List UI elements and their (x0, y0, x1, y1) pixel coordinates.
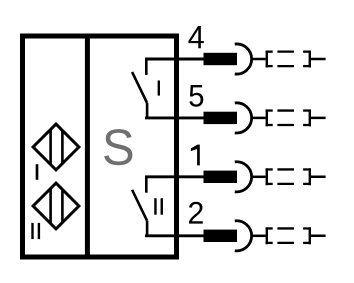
wire socket to connector 2 (251, 235, 266, 238)
switch II (132, 177, 147, 236)
pin 5 plug contact (204, 112, 238, 124)
pin 5 label (189, 85, 203, 107)
sensor element I label I (36, 164, 39, 180)
wire socket to connector 1 (251, 176, 266, 179)
wire out 5 (310, 117, 326, 120)
pin 2 socket arc (235, 221, 252, 251)
switch I (132, 59, 147, 118)
wire out 2 (310, 235, 326, 238)
pin 4 plug contact (204, 53, 238, 65)
pin 2 plug contact (204, 230, 238, 242)
compartment divider (85, 34, 90, 260)
cable connector 5 (dashed coupling) (266, 109, 311, 126)
label S (switching unit) (104, 129, 132, 165)
wire pin 1 (145, 175, 204, 178)
switch II label II (155, 198, 161, 215)
pin 2 label (189, 202, 203, 224)
pin 1 socket arc (235, 162, 252, 192)
sensor element II (diamond) (33, 183, 79, 229)
wire pin 2 (145, 234, 204, 237)
pin 4 label (188, 26, 203, 48)
wire out 4 (310, 58, 326, 61)
sensor element I (diamond) (33, 124, 79, 170)
wire socket to connector 5 (251, 117, 266, 120)
wire pin 5 (145, 116, 204, 119)
wire out 1 (310, 176, 326, 179)
pin 5 socket arc (235, 103, 252, 133)
cable connector 1 (dashed coupling) (266, 168, 311, 185)
pin 1 plug contact (204, 171, 238, 183)
pin 4 socket arc (235, 44, 252, 74)
enclosure box (23, 36, 177, 257)
sensor element II label II (33, 223, 39, 239)
switch I label I (158, 81, 160, 96)
wire socket to connector 4 (251, 58, 266, 61)
wire pin 4 (145, 58, 204, 61)
cable connector 2 (dashed coupling) (266, 227, 311, 244)
pin 1 label (191, 145, 200, 166)
cable connector 4 (dashed coupling) (266, 51, 311, 68)
